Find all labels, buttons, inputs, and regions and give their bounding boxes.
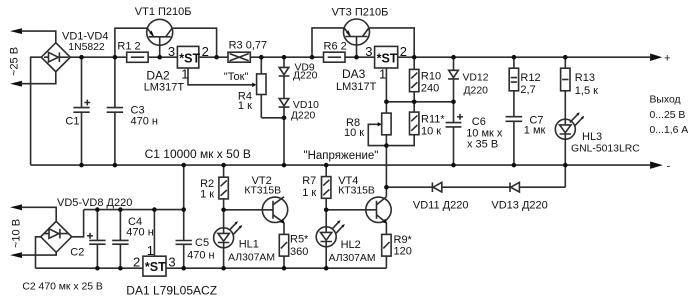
resistor R10 (410, 57, 419, 102)
wire VT2 base wire (224, 209, 273, 211)
wire bridge1 minus output to minus rail (31, 57, 42, 165)
svg-text:*ST: *ST (145, 260, 166, 274)
transistor VT1 (147, 19, 173, 57)
svg-text:R6 2: R6 2 (324, 41, 347, 53)
wire VT4 base wire (326, 209, 376, 211)
svg-text:КТ315В: КТ315В (244, 186, 281, 197)
resistor R2 (219, 165, 228, 210)
diode VD13 (510, 182, 519, 192)
svg-text:LM317T: LM317T (336, 81, 377, 93)
svg-text:*ST: *ST (377, 51, 398, 65)
svg-text:Выход: Выход (650, 95, 681, 106)
capacitor C7 (506, 117, 523, 165)
svg-text:-: - (667, 161, 671, 173)
wire minus rail (31, 164, 651, 166)
svg-text:Д220: Д220 (464, 86, 489, 97)
svg-text:R7: R7 (302, 175, 316, 187)
capacitor C3 (107, 57, 123, 165)
transistor VT3 (344, 19, 370, 57)
LED HL3 (555, 112, 584, 165)
svg-text:АЛ307АМ: АЛ307АМ (228, 253, 275, 264)
svg-text:240: 240 (421, 83, 439, 95)
svg-text:Д220: Д220 (291, 110, 316, 121)
diode VD12 (448, 57, 459, 102)
svg-text:1: 1 (147, 243, 154, 258)
svg-text:C6: C6 (472, 116, 486, 128)
output plus arrowhead (650, 54, 662, 62)
svg-text:2,7: 2,7 (520, 84, 535, 96)
svg-text:C1: C1 (65, 116, 79, 128)
node junction dots ADJ line (282, 100, 456, 190)
resistor R7 (322, 165, 331, 210)
LED HL1 (214, 210, 243, 268)
resistor R12 (509, 57, 518, 116)
svg-text:LM317T: LM317T (144, 81, 185, 93)
svg-text:3: 3 (168, 44, 175, 59)
svg-text:VD12: VD12 (463, 73, 489, 84)
svg-text:VD10: VD10 (293, 100, 319, 111)
svg-text:C2: C2 (70, 247, 84, 259)
capacitor C1 (73, 57, 90, 165)
node junction dots minus rail (79, 163, 567, 168)
output minus arrowhead (650, 161, 663, 169)
bridge rectifier VD1-VD4 (41, 43, 70, 72)
node junction dots plus rail (79, 55, 567, 60)
wire common rail (bottom section) (84, 209, 184, 211)
resistor R11 (386, 102, 419, 146)
svg-text:"Ток": "Ток" (224, 71, 249, 83)
svg-text:С2 470 мк х 25 В: С2 470 мк х 25 В (22, 281, 102, 292)
svg-text:1 мк: 1 мк (524, 125, 546, 137)
svg-text:КТ315В: КТ315В (338, 186, 375, 197)
svg-text:VD13 Д220: VD13 Д220 (491, 200, 547, 212)
wire bottom rail (36, 267, 387, 269)
wire tie minus rail to common rail and capacitor C5 (176, 165, 192, 268)
svg-text:470 н: 470 н (131, 116, 158, 128)
svg-text:VD1-VD4: VD1-VD4 (62, 31, 108, 43)
svg-text:R11*: R11* (421, 114, 445, 126)
svg-text:HL1: HL1 (239, 239, 259, 251)
svg-text:С1 10000 мк х 50 В: С1 10000 мк х 50 В (145, 147, 251, 161)
wire ADJ line (386, 101, 453, 103)
svg-text:3: 3 (168, 255, 175, 270)
svg-text:120: 120 (394, 246, 412, 258)
svg-text:Д220: Д220 (293, 71, 318, 82)
resistor R6 (324, 52, 346, 62)
svg-text:GNL-5013LRC: GNL-5013LRC (571, 144, 640, 155)
wire VD11/VD13 diode line (386, 165, 565, 187)
svg-text:2: 2 (202, 44, 209, 59)
svg-text:1: 1 (181, 66, 188, 81)
svg-text:R9*: R9* (394, 234, 413, 246)
resistor R13 (561, 57, 570, 119)
capacitor C2 (87, 210, 106, 269)
wire plus rail (70, 56, 650, 58)
svg-text:0...1,6 А: 0...1,6 А (650, 125, 689, 136)
svg-text:R12: R12 (520, 72, 540, 84)
svg-text:DA2: DA2 (146, 68, 170, 82)
diode VD11 (432, 182, 441, 192)
svg-text:470 н: 470 н (126, 227, 153, 239)
svg-text:10 к: 10 к (344, 127, 364, 139)
diode VD10 (279, 99, 290, 166)
resistor R1 (127, 52, 148, 62)
potentiometer R8 (368, 102, 391, 146)
svg-text:1 к: 1 к (238, 100, 252, 112)
svg-text:10 мк х: 10 мк х (466, 127, 503, 139)
svg-text:R10: R10 (421, 71, 441, 83)
svg-text:10 к: 10 к (421, 126, 441, 138)
svg-text:470 н: 470 н (187, 249, 214, 261)
svg-text:R1 2: R1 2 (117, 41, 140, 53)
svg-text:1: 1 (379, 66, 386, 81)
resistor R5 (279, 234, 288, 268)
svg-text:1 к: 1 к (200, 189, 214, 201)
svg-text:"Напряжение": "Напряжение" (304, 150, 379, 162)
resistor R3 (228, 52, 250, 62)
svg-text:2: 2 (400, 44, 407, 59)
svg-text:2: 2 (133, 255, 140, 270)
wire DA3 pin1 to ADJ line (385, 68, 387, 102)
wire VT1 emitter to R1 input node (115, 28, 147, 57)
svg-text:1N5822: 1N5822 (68, 42, 105, 53)
regulator DA1 L79L05ACZ box (143, 210, 166, 277)
wire VT3 emitter to R6 input node (312, 28, 344, 57)
svg-text:0...25 В: 0...25 В (650, 110, 686, 121)
potentiometer R4 (257, 57, 284, 118)
svg-text:~25 В: ~25 В (9, 47, 21, 76)
LED HL2 (316, 210, 345, 268)
diode VD9 (279, 57, 290, 98)
svg-text:DA1 L79L05ACZ: DA1 L79L05ACZ (126, 283, 217, 297)
wire AC input top arrow (~25 V line 1) (10, 28, 22, 34)
wire VT1 collector to DA2 output node (172, 28, 217, 57)
svg-text:VD11 Д220: VD11 Д220 (413, 200, 469, 212)
svg-text:360: 360 (290, 246, 308, 258)
resistor R9 (382, 234, 391, 268)
wire bridge2 plus output up to common rail (72, 210, 84, 237)
wire bridge2 minus output to bottom rail (36, 237, 41, 268)
wire AC input arrow (~10 V line 2) (10, 252, 22, 258)
wire AC input arrow (~10 V line 1) (10, 204, 22, 210)
svg-text:VD5-VD8 Д220: VD5-VD8 Д220 (57, 197, 132, 209)
svg-text:VT3 П210Б: VT3 П210Б (332, 7, 389, 19)
wire VT3 collector to DA3 output node (369, 28, 414, 57)
svg-text:3: 3 (365, 44, 372, 59)
svg-text:*ST: *ST (179, 51, 200, 65)
svg-text:R13: R13 (575, 72, 595, 84)
svg-text:R3 0,77: R3 0,77 (229, 40, 268, 52)
svg-text:VT1 П210Б: VT1 П210Б (135, 6, 192, 18)
svg-text:АЛ307АМ: АЛ307АМ (329, 253, 376, 264)
svg-text:1,5 к: 1,5 к (575, 85, 598, 97)
svg-text:C5: C5 (195, 237, 209, 249)
svg-text:~10 В: ~10 В (11, 219, 23, 248)
op-amp regulator DA3 LM317T box (375, 46, 398, 68)
op-amp regulator DA2 LM317T box (177, 46, 198, 68)
wire DA2 pin1 to Tok arrow (188, 68, 252, 85)
transistor VT2 (262, 197, 287, 235)
Tok arrowhead into R4 wiper (252, 83, 256, 88)
wire voltage-set net down to VD11 line and VT4 collector (385, 146, 387, 197)
capacitor C4 (112, 210, 128, 269)
svg-text:х 35 В: х 35 В (467, 139, 498, 151)
svg-text:C3: C3 (131, 105, 145, 117)
capacitor C6 (446, 102, 463, 165)
bridge rectifier VD5-VD8 (41, 221, 72, 252)
svg-text:HL2: HL2 (341, 239, 361, 251)
svg-text:1 к: 1 к (302, 187, 316, 199)
node junction dots bottom section (95, 207, 328, 270)
svg-text:R5*: R5* (290, 234, 309, 246)
svg-text:+: + (664, 53, 670, 65)
wire AC input arrow (~25 V line 2) (10, 81, 22, 87)
transistor VT4 (366, 197, 391, 235)
svg-text:HL3: HL3 (582, 131, 602, 143)
svg-text:DA3: DA3 (342, 67, 366, 81)
